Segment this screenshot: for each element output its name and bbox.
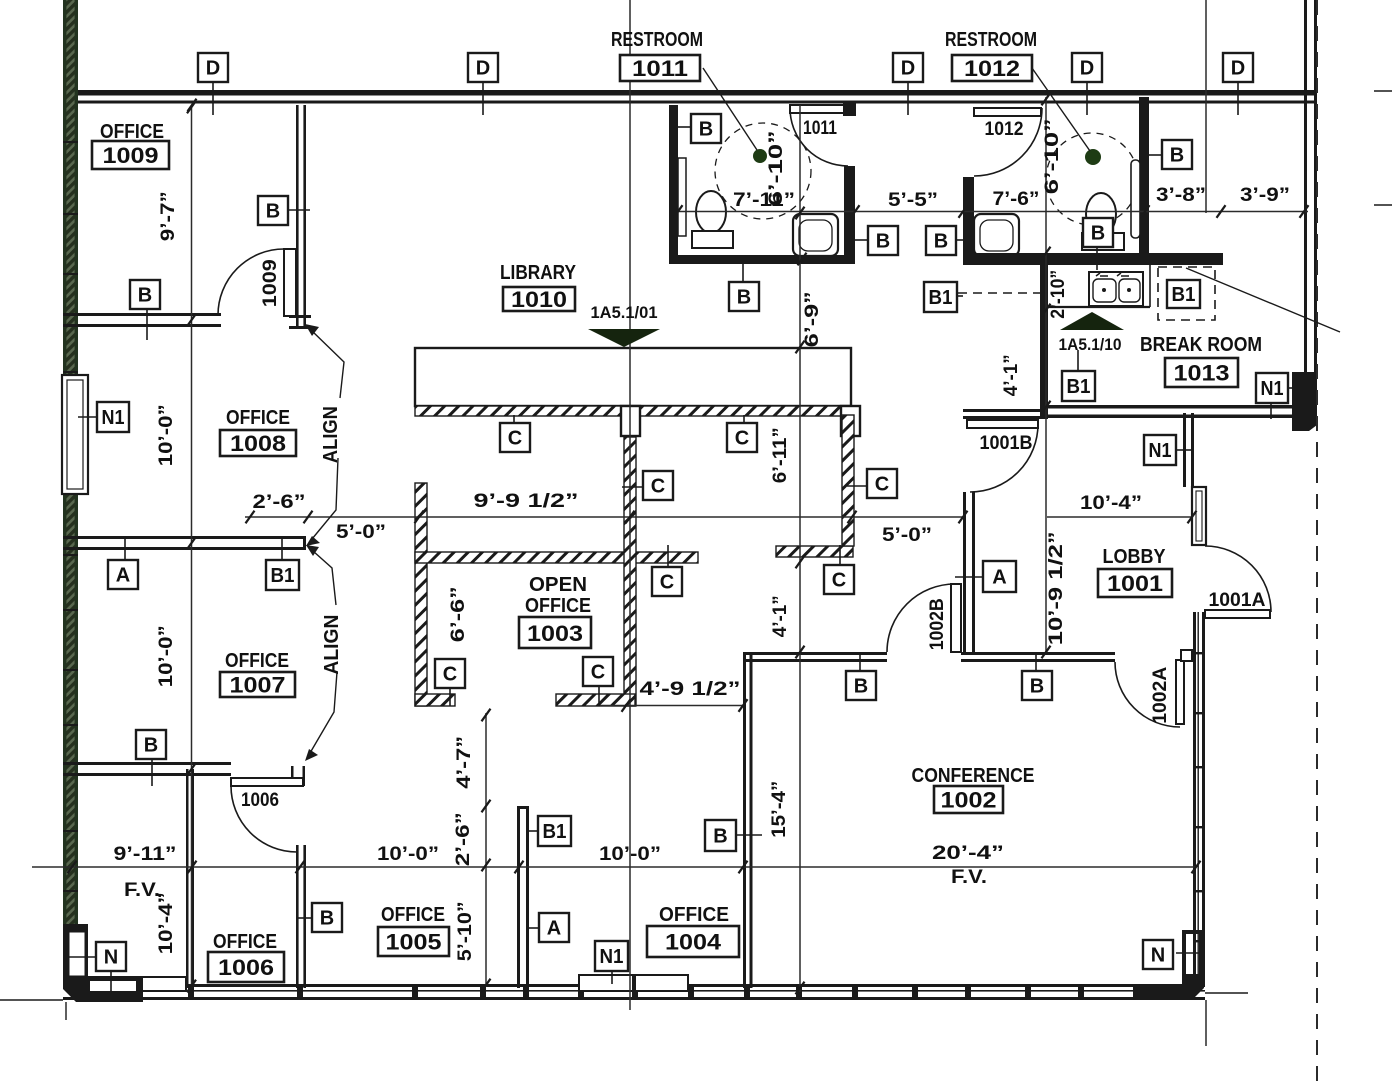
door 1006 leaf <box>231 778 303 786</box>
door 1009 leaf <box>284 249 296 316</box>
svg-text:9’-11”: 9’-11” <box>114 844 177 865</box>
svg-text:B: B <box>699 119 713 141</box>
wall tag D at x1072 <box>1072 53 1102 82</box>
lobby east wall lower <box>1193 612 1196 984</box>
tag C oo2 <box>727 423 757 452</box>
upper cabinet dashed <box>1158 267 1215 320</box>
door 1001B swing <box>970 424 1038 492</box>
restroom 1012 clearance circle <box>1046 133 1138 225</box>
svg-text:N1: N1 <box>600 946 624 968</box>
left wall window N1 <box>62 375 88 494</box>
grid line B (x630) <box>629 0 631 1010</box>
svg-text:10’-0”: 10’-0” <box>377 844 439 865</box>
svg-text:1004: 1004 <box>665 930 722 955</box>
svg-text:B: B <box>320 908 334 930</box>
svg-text:5’-10”: 5’-10” <box>455 901 476 961</box>
tag C oo7 <box>435 659 465 688</box>
restroom 1012 south wall <box>963 253 1223 265</box>
toilet 1012 <box>1086 193 1116 235</box>
floor drain 1012 <box>1085 149 1101 165</box>
dimension tick marks <box>674 205 683 218</box>
right wall corner step <box>1292 372 1317 431</box>
tag B restroom1011 c <box>729 282 759 311</box>
svg-text:B: B <box>1030 676 1044 698</box>
svg-text:7’-6”: 7’-6” <box>993 189 1040 210</box>
svg-text:1002A: 1002A <box>1150 666 1171 723</box>
door 1006 swing <box>231 786 297 852</box>
conference west wall <box>743 652 746 988</box>
svg-text:C: C <box>875 474 889 496</box>
mirror 1012 <box>1131 160 1140 238</box>
tag A lobby <box>983 561 1016 592</box>
svg-text:5’-5”: 5’-5” <box>888 190 938 211</box>
sink 1011 <box>793 214 838 256</box>
door 1002B swing <box>887 584 955 652</box>
grab bar 1011 <box>678 158 686 236</box>
tag N sw <box>96 942 126 971</box>
svg-text:B: B <box>876 231 890 253</box>
tag N1 bottom <box>595 941 628 971</box>
svg-text:B: B <box>713 826 727 848</box>
tag N se <box>1143 940 1173 969</box>
extension SW b <box>65 1002 67 1020</box>
wall office1005/1006 <box>296 845 299 988</box>
svg-text:ALIGN: ALIGN <box>321 615 343 675</box>
svg-text:D: D <box>1080 58 1094 80</box>
lobby west wall <box>963 492 966 652</box>
svg-text:5’-0”: 5’-0” <box>882 525 932 546</box>
svg-text:1012: 1012 <box>964 56 1020 81</box>
svg-text:C: C <box>508 428 522 450</box>
kitchen double sink <box>1089 272 1143 306</box>
bottom exterior storefront wall <box>63 984 1205 987</box>
svg-text:B1: B1 <box>929 287 953 309</box>
svg-text:1007: 1007 <box>230 673 286 698</box>
svg-text:20’-4”: 20’-4” <box>932 843 1004 864</box>
tag B office1005 <box>312 903 342 932</box>
svg-text:10’-0”: 10’-0” <box>156 404 177 466</box>
office 1007 bottom wall <box>63 762 231 765</box>
grid line F (x486) <box>485 713 487 987</box>
svg-text:4’-1”: 4’-1” <box>1001 354 1022 396</box>
svg-text:D: D <box>206 58 220 80</box>
tag B restroom1012 a <box>926 226 956 255</box>
sink 1012 <box>974 214 1019 256</box>
open office west wall (hatched) <box>415 483 427 706</box>
break room south wall <box>1042 405 1296 409</box>
leader cabinet B1 <box>1186 268 1340 332</box>
wall tag D at x198 <box>198 53 228 82</box>
tag N1 lobby <box>1144 435 1176 465</box>
door 1006 jamb <box>291 766 294 786</box>
top exterior wall <box>63 90 1317 96</box>
svg-text:B: B <box>934 231 948 253</box>
svg-text:OFFICE: OFFICE <box>525 595 591 617</box>
svg-text:B: B <box>737 287 751 309</box>
door 1012 leaf <box>974 108 1041 116</box>
svg-text:10’-4”: 10’-4” <box>156 892 177 954</box>
wall tag D at x468 <box>468 53 498 82</box>
svg-text:B: B <box>1091 223 1105 245</box>
svg-text:B: B <box>138 285 152 307</box>
svg-text:4’-9 1/2”: 4’-9 1/2” <box>640 679 741 700</box>
svg-text:D: D <box>476 58 490 80</box>
tag C oo3 <box>643 471 673 500</box>
svg-text:OFFICE: OFFICE <box>100 121 164 143</box>
office 1008 bottom wall <box>63 536 306 539</box>
tag B office1009 south <box>130 280 160 309</box>
tag C oo1 <box>500 423 530 452</box>
svg-text:BREAK ROOM: BREAK ROOM <box>1140 334 1262 356</box>
kitchen counter edge <box>1048 306 1150 308</box>
svg-text:B: B <box>144 735 158 757</box>
section marker 1A5.1/10 <box>1060 312 1124 330</box>
svg-text:N1: N1 <box>102 407 125 429</box>
extension SE b <box>1205 1000 1207 1046</box>
tag B conference n1 <box>846 671 876 700</box>
door 1011 swing <box>790 108 848 166</box>
svg-text:1001A: 1001A <box>1209 590 1266 611</box>
svg-text:B1: B1 <box>271 565 295 587</box>
SE corner block <box>1133 930 1204 998</box>
svg-text:15’-4”: 15’-4” <box>769 781 790 838</box>
door 1002B leaf <box>951 584 961 652</box>
restroom 1011 clearance circle <box>715 123 811 219</box>
svg-text:1005: 1005 <box>386 930 442 955</box>
tag B office1007 <box>136 730 166 759</box>
leader restroom 1012 <box>1032 68 1090 151</box>
tag B1 breakroom low <box>1062 371 1095 401</box>
svg-text:C: C <box>832 570 846 592</box>
svg-text:2’-6”: 2’-6” <box>253 492 306 513</box>
svg-text:1006: 1006 <box>241 790 279 811</box>
open office east wall (hatched) <box>624 437 636 706</box>
wall tag D at x1223 <box>1223 53 1253 82</box>
svg-text:F.V.: F.V. <box>124 880 160 901</box>
wall office1004/1005 <box>517 806 520 988</box>
door 1001B leaf <box>967 420 1038 428</box>
tag B restroom1011 a <box>691 114 721 143</box>
SW corner block <box>63 924 143 1002</box>
svg-text:1011: 1011 <box>632 56 688 81</box>
tag B conference w <box>705 820 736 851</box>
restroom 1011 west wall <box>669 105 678 264</box>
svg-text:9’-7”: 9’-7” <box>158 191 179 241</box>
corridor stub wall (hatched) <box>776 546 853 557</box>
svg-text:1011: 1011 <box>803 118 837 139</box>
tag B restroom1011 b <box>868 226 898 255</box>
grid line A (x192) <box>191 105 193 988</box>
tag B conference n2 <box>1022 671 1052 700</box>
svg-text:1002: 1002 <box>941 788 997 813</box>
library counter <box>415 348 851 406</box>
svg-text:1008: 1008 <box>230 431 286 456</box>
grid line D (x1046) <box>1045 97 1047 652</box>
door 1012 swing <box>974 108 1042 176</box>
break room west wall <box>1040 253 1048 419</box>
svg-text:B1: B1 <box>1067 376 1091 398</box>
svg-text:D: D <box>901 58 915 80</box>
svg-text:B1: B1 <box>1172 284 1196 306</box>
svg-text:C: C <box>660 572 674 594</box>
floor drain 1011 <box>753 149 767 163</box>
tag C oo8 <box>583 657 613 686</box>
svg-text:C: C <box>651 476 665 498</box>
restroom 1012 east wall <box>1139 97 1149 262</box>
svg-text:4’-1”: 4’-1” <box>770 595 791 637</box>
svg-text:6’-11”: 6’-11” <box>770 427 791 483</box>
svg-text:1006: 1006 <box>218 955 274 980</box>
svg-text:9’-9 1/2”: 9’-9 1/2” <box>474 491 579 512</box>
wall at door 1001B <box>963 409 1046 412</box>
leader restroom 1011 <box>703 68 757 150</box>
grid line C (x800) <box>799 105 801 992</box>
svg-text:C: C <box>735 428 749 450</box>
stub line top right b <box>1374 204 1392 206</box>
svg-text:C: C <box>443 664 457 686</box>
restroom 1011 east wall <box>844 166 855 264</box>
svg-text:1002B: 1002B <box>927 598 948 650</box>
svg-text:2’-10”: 2’-10” <box>1048 270 1069 319</box>
tag B1 cabinet <box>1167 280 1200 308</box>
door 1011 leaf <box>790 105 848 113</box>
svg-text:1009: 1009 <box>103 143 159 168</box>
svg-text:OFFICE: OFFICE <box>659 904 729 926</box>
tag B1 office1004 <box>538 816 571 846</box>
bottom wall window sill N1 left <box>86 977 140 991</box>
svg-text:RESTROOM: RESTROOM <box>945 29 1037 51</box>
lobby east window <box>1192 487 1206 545</box>
svg-text:10’-4”: 10’-4” <box>1080 493 1142 514</box>
svg-text:10’-9 1/2”: 10’-9 1/2” <box>1046 531 1067 645</box>
tag B restroom1012 c <box>1083 218 1113 247</box>
column right <box>841 406 860 436</box>
dim line 4-9.5 (y705) <box>600 705 743 707</box>
grid line E (x1206) <box>1205 0 1207 213</box>
dim line restrooms (y211) <box>678 211 1308 213</box>
svg-text:C: C <box>591 662 605 684</box>
svg-text:1A5.1/01: 1A5.1/01 <box>591 303 658 322</box>
stub line top right a <box>1374 90 1392 92</box>
svg-text:N: N <box>1151 945 1165 967</box>
dim line bottom (y867) <box>32 866 1196 868</box>
conference north wall east segment <box>961 652 1115 655</box>
tag B1 office1008 <box>266 560 299 590</box>
svg-text:N1: N1 <box>1261 378 1284 400</box>
svg-text:6’-9”: 6’-9” <box>802 291 823 347</box>
svg-text:OFFICE: OFFICE <box>213 931 277 953</box>
svg-text:OFFICE: OFFICE <box>381 904 445 926</box>
svg-text:A: A <box>547 918 561 940</box>
svg-text:10’-0”: 10’-0” <box>599 844 661 865</box>
tag N1 breakroom <box>1256 373 1288 403</box>
svg-text:OFFICE: OFFICE <box>226 407 290 429</box>
tag A office1008 <box>108 560 138 589</box>
tag N1 left wall <box>97 402 129 432</box>
svg-text:ALIGN: ALIGN <box>320 406 342 463</box>
left exterior wall <box>63 0 78 932</box>
svg-text:A: A <box>992 567 1006 589</box>
dim line lobby (y517b) <box>1047 516 1192 518</box>
door 1009 swing <box>218 249 284 315</box>
office 1009 east wall <box>296 105 299 329</box>
tag C oo5 <box>652 567 682 596</box>
tag B1 restroom1012 <box>924 282 957 312</box>
open office south wall a (hatched) <box>415 694 455 706</box>
svg-text:1010: 1010 <box>511 287 567 312</box>
column at grid <box>621 406 640 436</box>
svg-text:OPEN: OPEN <box>529 574 587 596</box>
stub wall vertical (hatched) <box>842 415 854 546</box>
dim line mid (y517) <box>245 516 963 518</box>
svg-text:B: B <box>854 676 868 698</box>
svg-text:A: A <box>116 565 130 587</box>
svg-text:2’-6”: 2’-6” <box>453 812 474 866</box>
open office south wall b (hatched) <box>556 694 635 706</box>
property dashed line right <box>1316 0 1318 1081</box>
svg-text:1001: 1001 <box>1107 571 1163 596</box>
door 1001A leaf <box>1205 610 1270 618</box>
base cabinet dashed line <box>958 292 1040 294</box>
svg-text:LIBRARY: LIBRARY <box>500 262 577 284</box>
svg-text:6’-10”: 6’-10” <box>1042 118 1063 194</box>
conference north wall west segment <box>743 652 887 655</box>
svg-text:D: D <box>1231 58 1245 80</box>
lobby NE wall <box>1183 413 1186 487</box>
svg-text:3’-8”: 3’-8” <box>1156 185 1206 206</box>
bottom wall window sill N1 mid <box>579 975 633 991</box>
svg-text:3’-9”: 3’-9” <box>1240 185 1290 206</box>
tag C oo6 <box>824 565 854 594</box>
svg-text:10’-0”: 10’-0” <box>156 625 177 687</box>
door 1002A swing <box>1115 662 1180 727</box>
svg-text:N1: N1 <box>1149 440 1172 462</box>
svg-text:1A5.1/10: 1A5.1/10 <box>1059 335 1122 354</box>
svg-text:B: B <box>266 201 280 223</box>
tag B office1009 <box>258 196 288 225</box>
open office north wall (hatched) <box>415 552 698 563</box>
extension SW a <box>0 999 63 1001</box>
svg-text:1013: 1013 <box>1174 361 1230 386</box>
svg-text:1003: 1003 <box>527 621 583 646</box>
svg-text:4’-7”: 4’-7” <box>454 736 475 789</box>
svg-text:RESTROOM: RESTROOM <box>611 29 703 51</box>
svg-text:6’-10”: 6’-10” <box>766 130 787 206</box>
restroom 1011 south wall <box>669 255 855 264</box>
wall tag D at x893 <box>893 53 923 82</box>
svg-text:1012: 1012 <box>985 119 1024 140</box>
svg-text:B: B <box>1170 145 1184 167</box>
tag C oo4 <box>867 469 897 498</box>
library hatched band <box>415 406 845 416</box>
svg-text:1001B: 1001B <box>980 433 1033 454</box>
svg-text:LOBBY: LOBBY <box>1103 546 1167 568</box>
tag B breakroom <box>1162 140 1192 169</box>
svg-text:5’-0”: 5’-0” <box>336 522 386 543</box>
svg-text:N: N <box>104 947 118 969</box>
svg-text:OFFICE: OFFICE <box>225 650 289 672</box>
restroom 1012 west wall <box>963 177 974 262</box>
toilet 1011 <box>696 191 726 233</box>
extension SE a <box>1205 992 1248 994</box>
svg-text:1009: 1009 <box>260 259 281 307</box>
svg-text:F.V.: F.V. <box>951 867 987 888</box>
door 1002A leaf <box>1176 660 1184 724</box>
tag A office1004 <box>539 913 569 942</box>
svg-text:B1: B1 <box>543 821 567 843</box>
svg-text:6’-6”: 6’-6” <box>448 586 469 642</box>
right exterior wall <box>1304 0 1307 373</box>
office 1009 bottom wall <box>63 313 221 316</box>
wall office1006 west <box>186 769 189 988</box>
svg-text:CONFERENCE: CONFERENCE <box>912 765 1035 787</box>
door 1001A swing <box>1205 546 1271 612</box>
